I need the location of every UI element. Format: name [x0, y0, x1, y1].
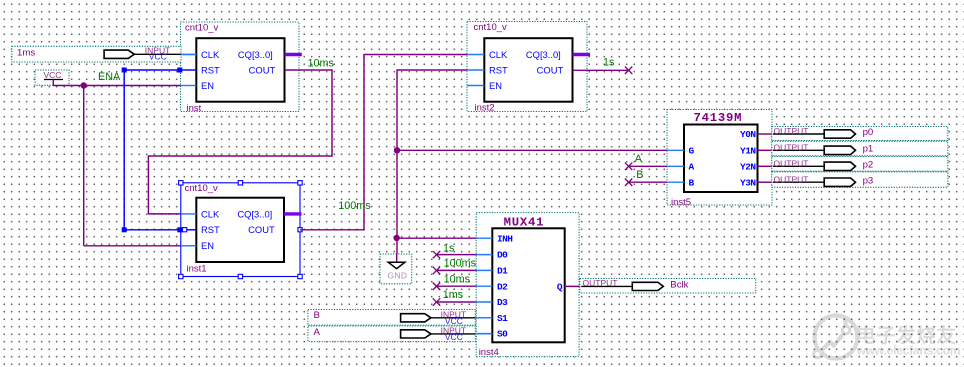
ground GND: [380, 254, 412, 284]
wire Q output: [565, 285, 582, 287]
junction VCC net: [81, 82, 87, 88]
svg-text:OUTPUT: OUTPUT: [774, 159, 809, 169]
svg-text:RST: RST: [201, 224, 220, 235]
wire A pin to S0: [475, 333, 492, 335]
svg-text:74139M: 74139M: [694, 111, 743, 125]
svg-text:cnt10_v: cnt10_v: [185, 23, 219, 34]
svg-text:ENA: ENA: [98, 71, 121, 83]
output pin p2: [772, 156, 948, 171]
svg-text:CLK: CLK: [201, 208, 220, 219]
x dangling 1s: [625, 67, 632, 75]
svg-text:1s: 1s: [603, 56, 615, 68]
svg-text:Y3N: Y3N: [740, 177, 756, 188]
wire Y2N output: [758, 165, 773, 167]
svg-text:COUT: COUT: [249, 64, 276, 75]
wire ENA to RST of inst1: [124, 229, 181, 231]
wire Y3N output: [758, 181, 773, 183]
svg-text:VCC: VCC: [149, 52, 167, 62]
wire node B to 74139M: [629, 181, 667, 183]
svg-text:Y0N: Y0N: [740, 129, 756, 140]
counter U inst1 cnt10_v (selected): [179, 181, 303, 279]
svg-text:D2: D2: [497, 281, 508, 292]
svg-text:100ms: 100ms: [444, 258, 477, 270]
svg-text:GND: GND: [388, 271, 408, 281]
svg-text:A: A: [635, 153, 643, 165]
svg-text:B: B: [689, 177, 695, 188]
svg-text:B: B: [636, 169, 643, 181]
wire ENA vertical: [123, 70, 125, 230]
svg-text:COUT: COUT: [537, 64, 564, 75]
decoder U inst5 74139M: [667, 110, 772, 209]
output pin Bclk: [580, 278, 756, 293]
wire VCC net vertical: [83, 86, 85, 246]
svg-text:p1: p1: [863, 144, 874, 155]
svg-text:OUTPUT: OUTPUT: [774, 174, 809, 184]
wire Y1N output: [758, 149, 773, 151]
svg-text:CQ[3..0]: CQ[3..0]: [238, 49, 273, 60]
counter U inst cnt10_v: [181, 22, 300, 114]
mux U inst4 MUX41: [476, 213, 579, 358]
svg-text:A: A: [314, 327, 321, 338]
svg-text:CLK: CLK: [489, 49, 508, 60]
junction gnd net at G branch: [394, 147, 400, 153]
svg-text:Y2N: Y2N: [740, 161, 756, 172]
junction squares ENA net endpoints: [122, 68, 183, 233]
svg-text:inst: inst: [187, 103, 202, 114]
x dangling D3: [433, 298, 440, 306]
svg-text:S0: S0: [497, 329, 508, 340]
wire node A to 74139M: [629, 165, 667, 167]
wire 1s net from COUT of inst2: [573, 69, 629, 71]
svg-text:S1: S1: [497, 313, 508, 324]
wire 10ms to D2: [437, 285, 477, 287]
wire 1ms to CLK: [181, 53, 196, 55]
svg-text:Bclk: Bclk: [670, 279, 688, 290]
svg-text:OUTPUT: OUTPUT: [774, 126, 809, 136]
svg-text:p0: p0: [863, 127, 874, 138]
wire 100ms net: COUT of inst1 to CLK of inst2: [300, 55, 467, 230]
svg-text:CQ[3..0]: CQ[3..0]: [237, 208, 272, 219]
svg-text:VCC: VCC: [44, 70, 62, 80]
svg-text:D1: D1: [497, 266, 508, 277]
svg-text:G: G: [689, 145, 695, 156]
svg-text:inst5: inst5: [671, 197, 691, 208]
svg-text:OUTPUT: OUTPUT: [774, 143, 809, 153]
x dangling D2: [433, 283, 440, 291]
output pin p0: [772, 126, 948, 140]
svg-text:CLK: CLK: [201, 49, 220, 60]
bus CQ[3..0] of inst2: [573, 53, 591, 56]
wire VCC net to EN of inst1: [84, 245, 181, 247]
input pin A: [308, 325, 475, 342]
x dangling D0: [433, 251, 440, 259]
svg-text:inst2: inst2: [475, 103, 495, 114]
svg-text:1s: 1s: [443, 242, 455, 254]
svg-text:100ms: 100ms: [338, 200, 371, 212]
svg-text:1ms: 1ms: [443, 289, 464, 301]
power VCC symbol: [35, 70, 69, 86]
output pin p3: [772, 172, 948, 188]
svg-text:10ms: 10ms: [308, 58, 335, 70]
wire gnd net vertical (RST inst2 / G / INH): [397, 70, 467, 262]
input pin B: [308, 309, 475, 326]
svg-text:EN: EN: [201, 80, 214, 91]
svg-text:A: A: [689, 161, 695, 172]
junction gnd net at INH branch: [394, 235, 400, 241]
wire 10ms net: COUT of inst to CLK of inst1: [148, 70, 332, 214]
svg-text:inst4: inst4: [479, 347, 499, 358]
svg-text:10ms: 10ms: [444, 273, 471, 285]
wire 100ms to D1: [437, 269, 477, 271]
svg-text:cnt10_v: cnt10_v: [185, 183, 219, 194]
wire B pin to S1: [475, 317, 492, 319]
x dangling B: [625, 179, 632, 187]
svg-text:D0: D0: [497, 250, 508, 261]
wire 1s to D0: [437, 254, 477, 256]
svg-text:1ms: 1ms: [17, 47, 35, 58]
svg-text:RST: RST: [201, 64, 220, 75]
svg-text:p2: p2: [863, 160, 874, 171]
bus CQ[3..0] of inst1: [284, 212, 302, 215]
svg-text:COUT: COUT: [248, 224, 275, 235]
svg-text:EN: EN: [201, 240, 214, 251]
svg-text:B: B: [314, 310, 320, 321]
wire Y0N output: [758, 133, 773, 135]
wire gnd net branch to G of 74139M: [397, 149, 667, 151]
svg-text:p3: p3: [863, 175, 874, 186]
svg-text:VCC: VCC: [445, 332, 463, 342]
svg-text:Y1N: Y1N: [740, 145, 756, 156]
svg-text:D3: D3: [497, 297, 508, 308]
svg-text:EN: EN: [489, 80, 502, 91]
svg-text:OUTPUT: OUTPUT: [583, 278, 618, 288]
wire 1ms to D3: [437, 301, 477, 303]
svg-text:inst1: inst1: [187, 264, 207, 275]
svg-text:CQ[3..0]: CQ[3..0]: [526, 49, 561, 60]
wire VCC net horizontal to EN of inst: [53, 85, 180, 87]
counter U inst2 cnt10_v: [467, 22, 587, 114]
x dangling D1: [433, 267, 440, 275]
svg-text:Q: Q: [557, 282, 563, 293]
svg-text:cnt10_v: cnt10_v: [474, 22, 508, 33]
x dangling A: [625, 163, 632, 171]
bus CQ[3..0] of inst: [285, 53, 302, 56]
wire ENA to RST of inst: [124, 69, 180, 71]
output pin p1: [772, 141, 948, 156]
svg-text:RST: RST: [489, 64, 508, 75]
wire gnd net branch to INH of MUX41: [397, 237, 476, 239]
input pin 1ms: [12, 46, 181, 62]
svg-text:INH: INH: [497, 233, 513, 244]
